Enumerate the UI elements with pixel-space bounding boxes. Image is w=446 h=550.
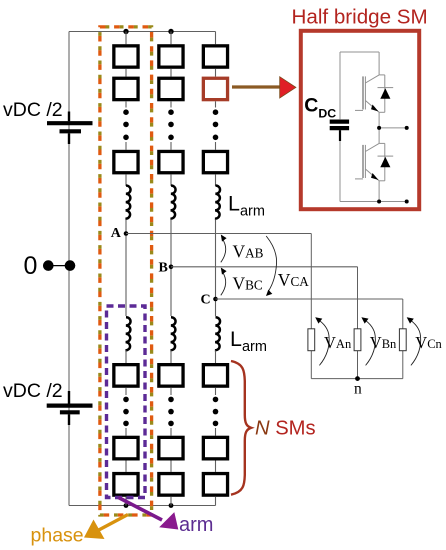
red detail box — [301, 31, 419, 209]
wire left DC rail — [68, 32, 70, 506]
ellipsis dots — [123, 109, 129, 115]
purple dashed arm box — [107, 306, 146, 498]
wire — [170, 428, 172, 436]
wire — [215, 461, 217, 472]
SM cell — [203, 46, 227, 67]
svg-text:VAn: VAn — [324, 333, 352, 352]
capacitor CDC plates — [330, 119, 349, 123]
wire phase C output — [216, 298, 403, 300]
svg-text:n: n — [354, 381, 362, 398]
arrow VBn arc — [363, 319, 375, 366]
svg-text:arm: arm — [179, 514, 213, 536]
arrow arm pointer — [119, 498, 163, 521]
SM cell — [203, 437, 227, 459]
node n — [355, 376, 360, 381]
inductor Larm upper B — [170, 186, 175, 219]
svg-text:vDC /2: vDC /2 — [3, 99, 63, 121]
SM cell — [203, 151, 227, 172]
ellipsis dots — [168, 397, 174, 403]
battery vDC/2 lower — [47, 391, 93, 425]
wire HB bottom — [340, 201, 407, 203]
SM cell — [114, 151, 138, 172]
inductor Larm lower C — [215, 317, 220, 350]
arrow VBC arc — [221, 272, 226, 296]
wire — [170, 388, 172, 395]
wire — [125, 220, 127, 317]
svg-text:VCA: VCA — [278, 270, 309, 290]
diode D2 triangle — [380, 157, 390, 168]
SM cell — [114, 46, 138, 67]
wire — [170, 461, 172, 472]
arrow SM to half-bridge detail — [232, 85, 281, 88]
wire — [125, 174, 127, 186]
arrow phase pointer — [95, 515, 128, 533]
SM cell — [159, 365, 183, 387]
ellipsis dots — [123, 397, 129, 403]
leg A upper arm — [111, 32, 311, 506]
leg C — [201, 32, 403, 506]
wire Q1 emitter drop — [378, 112, 380, 143]
inductor Larm upper C — [215, 186, 220, 219]
svg-text:B: B — [159, 261, 168, 276]
wire — [215, 428, 217, 436]
wire — [125, 461, 127, 472]
node B — [169, 265, 174, 270]
SM cell highlighted (half-bridge) — [203, 78, 227, 99]
inductor Larm lower A — [125, 317, 130, 350]
svg-text:CDC: CDC — [304, 95, 336, 121]
SM cell — [159, 151, 183, 172]
wire — [170, 32, 172, 45]
brace N SMs — [231, 361, 251, 495]
node HB bottom right — [405, 200, 409, 204]
node 0 midpoint — [48, 265, 69, 267]
IGBT Q1 frame — [379, 74, 385, 76]
battery vDC/2 upper — [47, 112, 93, 145]
svg-text:Half bridge SM: Half bridge SM — [292, 6, 428, 29]
wire — [215, 220, 217, 317]
svg-text:Larm: Larm — [230, 327, 267, 355]
SM cell — [114, 365, 138, 387]
SM cell — [159, 46, 183, 67]
wire phase A output — [126, 233, 311, 235]
wire — [170, 351, 172, 364]
node HB out right — [405, 126, 409, 130]
wire — [215, 69, 217, 77]
IGBT Q2 emitter arrow — [371, 173, 379, 180]
wire — [125, 101, 127, 107]
inductor Larm lower B — [170, 317, 175, 350]
arrow VAn arc — [317, 319, 329, 366]
wire — [170, 142, 172, 150]
wire phase B output — [171, 266, 358, 268]
diode D1 triangle — [380, 88, 390, 99]
node HB out left — [377, 126, 381, 130]
IGBT Q2 frame — [379, 142, 385, 144]
wire bottom bus — [69, 505, 216, 507]
wire — [170, 69, 172, 77]
svg-text:vDC /2: vDC /2 — [3, 380, 63, 402]
svg-text:Larm: Larm — [228, 191, 265, 219]
ellipsis dots — [213, 397, 219, 403]
SM cell — [159, 474, 183, 496]
node HB bottom mid — [377, 200, 381, 204]
svg-text:C: C — [201, 293, 211, 308]
diode D2 cathode bar — [378, 155, 394, 157]
svg-text:VBn: VBn — [370, 333, 397, 352]
wire — [125, 142, 127, 150]
wire phase A drop — [310, 234, 312, 329]
wire — [215, 32, 217, 45]
SM cell — [114, 474, 138, 496]
wire HB left rail — [339, 52, 341, 119]
svg-text:N SMs: N SMs — [255, 418, 316, 440]
IGBT Q1 emitter arrow — [371, 105, 379, 112]
arrow VAB arc — [221, 239, 226, 262]
svg-text:VCn: VCn — [415, 333, 442, 352]
wire — [170, 497, 172, 506]
orange dashed phase box — [100, 27, 152, 515]
leg B — [159, 32, 358, 506]
ellipsis dots — [168, 109, 174, 115]
wire — [125, 351, 127, 364]
node junction top leg B — [168, 29, 173, 34]
node junction bottom leg A — [124, 503, 129, 508]
load C — [399, 329, 406, 351]
wire — [170, 220, 172, 317]
wire — [215, 351, 217, 364]
svg-text:0: 0 — [24, 252, 38, 280]
node C — [213, 297, 218, 302]
wire load bottom bus — [311, 378, 403, 380]
SM cell — [203, 474, 227, 496]
svg-text:VAB: VAB — [233, 242, 264, 262]
wire HB right top — [378, 52, 380, 75]
load B — [354, 329, 361, 351]
svg-text:A: A — [111, 226, 122, 241]
wire — [125, 69, 127, 77]
diode D1 cathode bar — [378, 87, 394, 89]
inductor Larm upper A — [125, 186, 130, 219]
half-bridge internals — [340, 52, 407, 202]
ellipsis dots — [213, 109, 219, 115]
SM cell — [203, 365, 227, 387]
SM cell — [159, 437, 183, 459]
wire — [215, 388, 217, 395]
node A — [124, 231, 129, 236]
wire top bus — [69, 31, 216, 33]
wire phase B drop — [357, 267, 359, 329]
svg-text:phase: phase — [31, 525, 84, 547]
wire — [170, 101, 172, 107]
wire HB top — [340, 51, 379, 53]
wire phase C drop — [402, 299, 404, 329]
wire — [215, 101, 217, 107]
wire — [125, 497, 127, 506]
wire HB output — [379, 127, 407, 129]
wire — [215, 174, 217, 186]
wire Q2 emitter drop — [378, 181, 380, 202]
arrow VCn arc — [408, 319, 420, 366]
wire — [125, 428, 127, 436]
SM cell — [114, 437, 138, 459]
wire — [215, 142, 217, 150]
svg-text:VBC: VBC — [233, 274, 263, 294]
arrow VCA arc — [266, 236, 276, 291]
node junction bottom leg B — [169, 503, 174, 508]
SM cell — [114, 78, 138, 99]
load A — [308, 329, 315, 351]
wire — [125, 32, 127, 45]
SM cell — [159, 78, 183, 99]
wire — [215, 497, 217, 506]
wire — [170, 174, 172, 186]
wire — [125, 388, 127, 395]
node junction top leg A — [123, 29, 128, 34]
